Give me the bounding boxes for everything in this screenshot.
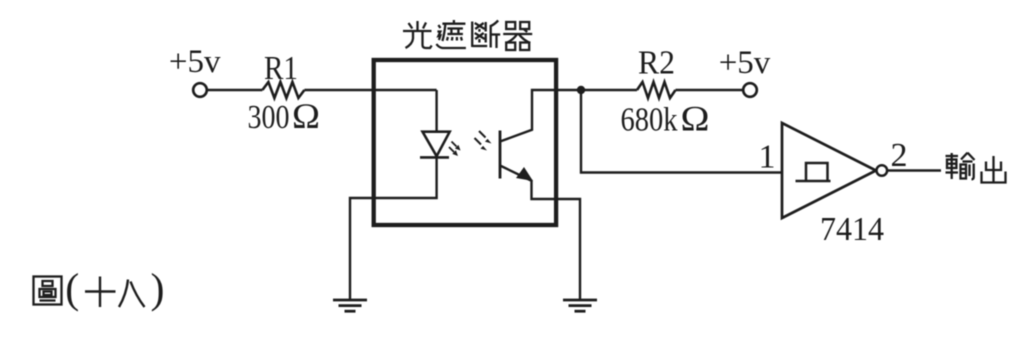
svg-text:R2: R2 <box>638 45 675 82</box>
svg-text:7414: 7414 <box>820 211 884 248</box>
svg-text:+5v: +5v <box>169 44 221 80</box>
svg-text:+5v: +5v <box>719 45 771 81</box>
svg-text:Ω: Ω <box>292 96 320 136</box>
svg-text:2: 2 <box>891 137 908 174</box>
svg-text:Ω: Ω <box>681 98 710 138</box>
svg-text:R1: R1 <box>264 50 298 87</box>
svg-text:680k: 680k <box>621 101 678 138</box>
svg-text:300: 300 <box>248 99 290 136</box>
svg-text:): ) <box>151 267 165 313</box>
svg-text:1: 1 <box>759 139 776 176</box>
svg-text:(: ( <box>65 267 79 313</box>
